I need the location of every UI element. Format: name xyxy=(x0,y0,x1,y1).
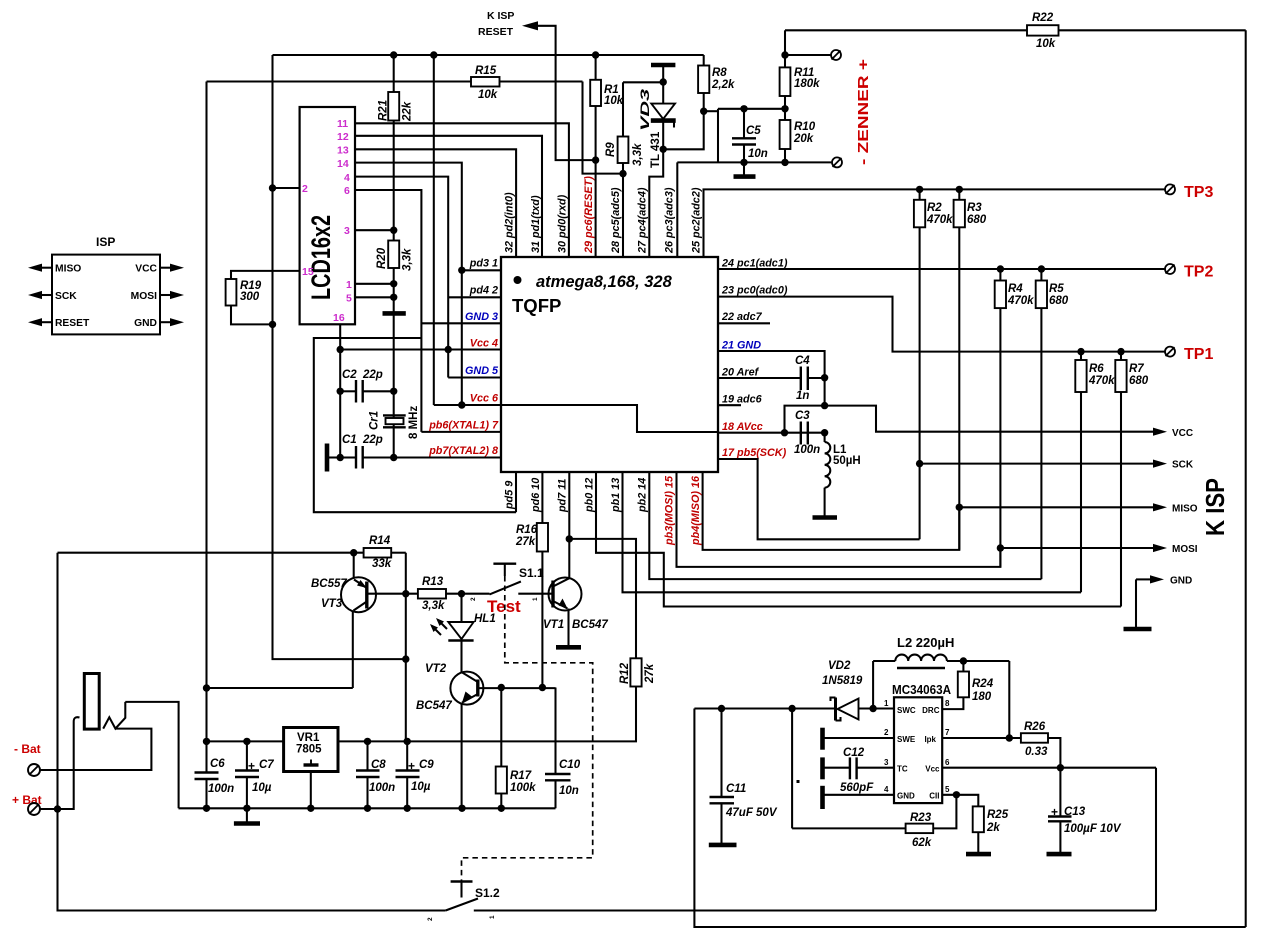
wire Vcc6 row + internal xyxy=(434,404,501,406)
svg-text:+: + xyxy=(248,759,255,773)
svg-text:C13: C13 xyxy=(1064,806,1086,818)
svg-text:11: 11 xyxy=(337,118,348,130)
wire pd7-11 to VT1 collector xyxy=(568,472,570,578)
svg-text:K ISP: K ISP xyxy=(1200,478,1230,536)
wire pin18 AVcc row xyxy=(718,432,825,434)
svg-text:C9: C9 xyxy=(419,759,434,771)
svg-text:10k: 10k xyxy=(478,89,498,101)
svg-text:pb2 14: pb2 14 xyxy=(637,478,649,513)
svg-text:+: + xyxy=(1051,805,1058,819)
wire U2 pin6 Vcc line xyxy=(942,767,1156,769)
wire LCD p3 to R20 xyxy=(355,229,394,231)
resistor R24 xyxy=(962,661,964,672)
svg-text:pd7 11: pd7 11 xyxy=(557,479,569,513)
crystal Cr1 xyxy=(383,414,406,416)
svg-text:3,3k: 3,3k xyxy=(632,143,644,166)
svg-text:10k: 10k xyxy=(1036,38,1056,50)
resistor R10 xyxy=(780,120,791,149)
node rail-R1 xyxy=(592,51,599,58)
node R9top-VD3 xyxy=(660,78,667,85)
wire L2 right to R26 node xyxy=(1008,661,1010,738)
node p16-Vcc4 xyxy=(337,346,344,353)
svg-text:RESET: RESET xyxy=(55,318,90,329)
transistor VT1 BC547 xyxy=(549,578,582,611)
svg-text:7805: 7805 xyxy=(296,744,322,756)
svg-text:R4: R4 xyxy=(1008,283,1023,295)
svg-text:5: 5 xyxy=(945,785,950,794)
svg-text:18 AVcc: 18 AVcc xyxy=(722,421,763,433)
svg-text:27k: 27k xyxy=(644,663,656,684)
wire MISO arrow line xyxy=(959,506,1155,508)
node R5-TP2 xyxy=(1038,265,1045,272)
svg-text:HL1: HL1 xyxy=(474,613,496,625)
svg-text:SWE: SWE xyxy=(897,735,916,744)
svg-text:ISP: ISP xyxy=(96,235,115,249)
svg-text:10n: 10n xyxy=(748,148,768,160)
ISP left arrows xyxy=(40,267,52,269)
ground sideways at C1 xyxy=(327,456,340,458)
capacitor C2 xyxy=(340,390,356,392)
node C5-bottom xyxy=(740,159,747,166)
wire LCD p11 to MCU pin30 xyxy=(355,123,569,257)
wire pd4 row xyxy=(448,296,501,298)
svg-text:3: 3 xyxy=(884,758,889,767)
resistor R17 xyxy=(500,688,502,767)
svg-text:13: 13 xyxy=(337,145,349,157)
node R2-SCK xyxy=(916,460,923,467)
svg-text:- Bat: - Bat xyxy=(14,742,41,756)
wire pin23 to TP1 line xyxy=(718,297,1165,352)
svg-text:1n: 1n xyxy=(796,390,809,402)
node R19-bottom xyxy=(269,321,276,328)
resistor R1 xyxy=(595,55,597,80)
wire MOSI arrow line xyxy=(1000,547,1155,549)
node VR1-gnd xyxy=(307,805,314,812)
wire pin17 SCK net xyxy=(718,459,920,539)
diode VD2 1N5819 xyxy=(834,698,837,721)
svg-text:470k: 470k xyxy=(1088,375,1115,387)
svg-text:R5: R5 xyxy=(1049,283,1064,295)
svg-text:6: 6 xyxy=(945,758,950,767)
svg-text:2,2k: 2,2k xyxy=(711,79,735,91)
wire R15 to R9-bottom jog x=582.5 xyxy=(583,82,624,174)
wire pb3-15 MOSI net xyxy=(677,472,1001,567)
node C6-gnd xyxy=(203,805,210,812)
wire pb4-16 MISO net xyxy=(703,472,960,550)
svg-text:100k: 100k xyxy=(510,782,536,794)
resistor R2 xyxy=(919,189,921,199)
svg-text:atmega8,168, 328: atmega8,168, 328 xyxy=(536,273,673,291)
wire pb7 XTAL2 row xyxy=(363,456,501,458)
resistor R21 xyxy=(393,55,395,92)
ground under C5 xyxy=(743,162,745,176)
wire ZENNER- line y=162.4 xyxy=(677,161,831,163)
svg-text:1N5819: 1N5819 xyxy=(822,675,863,687)
svg-text:pd6 10: pd6 10 xyxy=(530,478,542,513)
arrow VCC xyxy=(1153,428,1167,436)
wire pin1 line xyxy=(694,707,835,709)
svg-text:TP2: TP2 xyxy=(1184,264,1213,281)
svg-text:680: 680 xyxy=(967,214,987,226)
svg-text:- ZENNER +: - ZENNER + xyxy=(855,59,872,165)
svg-text:pb3(MOSI) 15: pb3(MOSI) 15 xyxy=(664,475,676,546)
wire pd3 row xyxy=(462,269,501,271)
svg-text:100n: 100n xyxy=(369,782,395,794)
node pd7-R12 xyxy=(566,535,573,542)
svg-text:180: 180 xyxy=(972,691,992,703)
wire ground rail xyxy=(179,807,556,809)
svg-text:10k: 10k xyxy=(604,95,624,107)
node R11-zenner xyxy=(781,51,788,58)
wire LCD p5 xyxy=(355,296,394,298)
svg-text:pd4 2: pd4 2 xyxy=(469,285,498,297)
svg-text:MC34063A: MC34063A xyxy=(892,682,952,697)
svg-text:31 pd1(txd): 31 pd1(txd) xyxy=(530,195,542,253)
svg-text:Cr1: Cr1 xyxy=(369,411,381,430)
node C7-top xyxy=(243,738,250,745)
node R20-p1 xyxy=(390,280,397,287)
svg-text:20k: 20k xyxy=(793,133,814,145)
svg-text:VCC: VCC xyxy=(135,264,157,275)
diode VD3 TL431 xyxy=(651,63,675,68)
resistor R9 xyxy=(622,82,624,136)
svg-text:VT2: VT2 xyxy=(425,663,447,675)
node rail-R21 xyxy=(390,51,397,58)
svg-text:MOSI: MOSI xyxy=(1172,544,1198,555)
svg-text:GND: GND xyxy=(134,318,157,329)
wire R15 net y=81.5 left section xyxy=(207,80,583,82)
ISP right arrows xyxy=(160,267,172,269)
node R7-TP1 xyxy=(1117,348,1124,355)
svg-text:VR1: VR1 xyxy=(297,732,320,744)
node C11-top xyxy=(718,705,725,712)
wire pin28 column xyxy=(622,174,624,257)
svg-text:0.33: 0.33 xyxy=(1025,746,1048,758)
wire LCD p16 column xyxy=(339,324,341,457)
inductor L2 xyxy=(872,661,874,709)
connector bars left of U2 xyxy=(820,728,825,750)
svg-text:VD2: VD2 xyxy=(828,660,851,672)
svg-text:GND 5: GND 5 xyxy=(465,365,499,377)
svg-text:24 pc1(adc1): 24 pc1(adc1) xyxy=(721,258,788,270)
resistor R20 xyxy=(388,241,399,269)
capacitor C4 xyxy=(800,367,802,391)
svg-text:15: 15 xyxy=(302,266,314,278)
wire LCD p2 xyxy=(273,187,300,189)
node R8-bottom xyxy=(700,108,707,115)
svg-text:Ipk: Ipk xyxy=(924,735,936,744)
node Vcc6-T xyxy=(458,401,465,408)
resistor R4 xyxy=(999,269,1001,281)
svg-text:4: 4 xyxy=(884,785,889,794)
node C2-right xyxy=(390,388,397,395)
svg-text:180k: 180k xyxy=(794,78,820,90)
wire LCD p6 to XTAL1 column xyxy=(355,190,421,432)
svg-text:MISO: MISO xyxy=(1172,503,1198,514)
svg-text:26 pc3(adc3): 26 pc3(adc3) xyxy=(664,187,676,254)
svg-text:CII: CII xyxy=(929,792,939,801)
resistor R26 xyxy=(1021,733,1048,743)
wire right outer vertical x=1245.7 xyxy=(1245,30,1247,927)
svg-text:L2 220µH: L2 220µH xyxy=(897,635,954,650)
wire pin20 Aref xyxy=(718,377,801,379)
node R6-TP1 xyxy=(1077,348,1084,355)
svg-text:470k: 470k xyxy=(926,214,953,226)
svg-text:25 pc2(adc2): 25 pc2(adc2) xyxy=(691,187,703,254)
node R3-MISO xyxy=(956,504,963,511)
svg-text:Vcc: Vcc xyxy=(925,765,940,774)
LCD16x2 module xyxy=(300,107,355,324)
svg-text:R23: R23 xyxy=(910,812,932,824)
svg-text:47uF 50V: 47uF 50V xyxy=(725,807,778,819)
mcu U2 MC34063A xyxy=(894,697,942,803)
capacitor C6 xyxy=(195,771,219,773)
svg-text:32 pd2(int0): 32 pd2(int0) xyxy=(504,192,516,253)
svg-text:17 pb5(SCK): 17 pb5(SCK) xyxy=(722,447,787,459)
svg-text:22p: 22p xyxy=(362,369,383,381)
svg-text:21 GND: 21 GND xyxy=(721,339,761,351)
svg-text:BC557: BC557 xyxy=(311,578,347,590)
node R13-R14 xyxy=(402,590,409,597)
wire LCD p12 to MCU pin31 xyxy=(355,136,542,257)
svg-text:pb1 13: pb1 13 xyxy=(610,478,622,513)
node TL431-R8 xyxy=(660,146,667,153)
svg-text:2: 2 xyxy=(470,597,477,601)
node +Bat-vert xyxy=(54,805,61,812)
ground under R20 xyxy=(383,311,406,316)
node R26-C13 xyxy=(1057,764,1064,771)
svg-text:2k: 2k xyxy=(986,822,1000,834)
wire pd5-9 xyxy=(515,472,517,512)
node C8-gnd xyxy=(364,805,371,812)
svg-text:Vcc 6: Vcc 6 xyxy=(470,392,499,404)
resistor R11 xyxy=(784,30,786,67)
capacitor C8 xyxy=(366,741,368,770)
svg-text:C4: C4 xyxy=(795,355,810,367)
node C9-gnd xyxy=(404,805,411,812)
wire LCD p1 xyxy=(355,283,394,285)
svg-text:Vcc 4: Vcc 4 xyxy=(470,337,498,349)
resistor R19 xyxy=(226,279,237,306)
node C7-gnd xyxy=(243,805,250,812)
svg-text:S1.2: S1.2 xyxy=(475,886,500,900)
svg-text:R25: R25 xyxy=(987,809,1009,821)
wire jack output xyxy=(125,702,178,808)
svg-text:1: 1 xyxy=(884,699,889,708)
wire crystal column xyxy=(393,313,395,457)
svg-text:8: 8 xyxy=(945,699,950,708)
node R17-gnd xyxy=(498,805,505,812)
capacitor C7 xyxy=(246,741,248,770)
connector jack pin xyxy=(84,674,99,730)
node C4-right xyxy=(821,374,828,381)
node L2-R24 xyxy=(960,657,967,664)
node C9-top xyxy=(404,738,411,745)
wire U2 pin5 CII xyxy=(942,795,978,807)
node L2-pin1 xyxy=(869,705,876,712)
wire left rail vertical x=272.5 xyxy=(273,55,406,659)
wire VR1 gnd column xyxy=(310,772,312,809)
svg-text:29 pc6(RESET): 29 pc6(RESET) xyxy=(583,176,595,254)
svg-text:R15: R15 xyxy=(475,65,497,77)
svg-text:S1.1: S1.1 xyxy=(519,566,544,580)
wire GND5 row xyxy=(448,376,501,378)
svg-text:pb7(XTAL2) 8: pb7(XTAL2) 8 xyxy=(428,445,498,457)
node R17-top xyxy=(498,684,505,691)
resistor R3 xyxy=(958,189,960,199)
connector jack spring contact xyxy=(103,702,125,729)
capacitor C12 + wire U2 pin3 xyxy=(824,767,850,769)
svg-text:DRC: DRC xyxy=(922,706,940,715)
wire SCK arrow line xyxy=(920,463,1155,465)
svg-text:R22: R22 xyxy=(1032,12,1054,24)
wire +Bat to jack clip xyxy=(40,722,74,809)
svg-text:62k: 62k xyxy=(912,837,932,849)
svg-text:7: 7 xyxy=(945,728,950,737)
wire left vertical x=57.5 to S1.2 xyxy=(58,553,446,911)
svg-text:C5: C5 xyxy=(746,125,761,137)
node R23-top xyxy=(788,705,795,712)
node C4-jog xyxy=(821,402,828,409)
wire U2 pin4 xyxy=(824,794,894,796)
wire VCC jog over C3 xyxy=(785,406,1156,433)
wire R23 riser xyxy=(791,709,793,829)
svg-text:23 pc0(adc0): 23 pc0(adc0) xyxy=(721,285,788,297)
wire VT2 base line xyxy=(478,687,556,689)
svg-text:+: + xyxy=(408,759,415,773)
svg-text:VT1: VT1 xyxy=(543,619,564,631)
svg-text:28 pc5(adc5): 28 pc5(adc5) xyxy=(610,187,622,254)
wire U2 pin2 xyxy=(824,737,894,739)
dashed link S1.1 down xyxy=(462,576,593,882)
svg-text:R10: R10 xyxy=(794,121,816,133)
svg-text:19 adc6: 19 adc6 xyxy=(722,393,763,405)
svg-text:SCK: SCK xyxy=(1172,460,1194,471)
svg-text:BC547: BC547 xyxy=(572,619,608,631)
svg-text:pb0 12: pb0 12 xyxy=(584,478,596,513)
capacitor C5 xyxy=(743,109,745,139)
wire pin22 stub xyxy=(718,322,770,324)
svg-text:6: 6 xyxy=(344,185,350,197)
svg-text:C1: C1 xyxy=(342,434,357,446)
svg-text:1: 1 xyxy=(532,597,539,601)
node R16-bottom xyxy=(539,684,546,691)
svg-text:100µF 10V: 100µF 10V xyxy=(1064,823,1122,835)
svg-text:680: 680 xyxy=(1049,295,1069,307)
svg-text:R2: R2 xyxy=(927,202,942,214)
svg-text:1: 1 xyxy=(346,279,352,291)
svg-text:3,3k: 3,3k xyxy=(402,248,414,271)
wire outer loop left xyxy=(694,709,1245,928)
svg-text:R17: R17 xyxy=(510,770,532,782)
svg-text:R7: R7 xyxy=(1129,363,1144,375)
svg-text:C8: C8 xyxy=(371,759,386,771)
wire R14 line from left xyxy=(58,552,364,554)
svg-text:10µ: 10µ xyxy=(252,782,272,794)
svg-text:R8: R8 xyxy=(712,67,727,79)
svg-text:pd3 1: pd3 1 xyxy=(469,258,498,270)
node C6-top xyxy=(203,738,210,745)
svg-text:RESET: RESET xyxy=(478,26,514,38)
svg-text:12: 12 xyxy=(337,131,349,143)
wire R9 top to VD3 y=82.3 xyxy=(623,81,663,83)
node R10-bottom xyxy=(781,159,788,166)
svg-text:1: 1 xyxy=(489,915,496,919)
wire -Bat to jack xyxy=(40,729,151,770)
svg-text:MISO: MISO xyxy=(55,264,81,275)
wire GND arrow + ground xyxy=(1136,578,1152,580)
resistor R7 xyxy=(1120,352,1122,360)
svg-text:R16: R16 xyxy=(516,524,538,536)
svg-text:TC: TC xyxy=(897,765,908,774)
wire GND3 jog xyxy=(421,322,501,324)
svg-text:50µH: 50µH xyxy=(833,455,861,467)
svg-text:16: 16 xyxy=(333,312,345,324)
node R4-MOSI xyxy=(997,544,1004,551)
wire left long vertical x=206.5 from R15 line down to C6 xyxy=(205,82,207,773)
node x272-column xyxy=(402,655,409,662)
wire pb2-14 net xyxy=(649,472,1041,579)
inductor L1 xyxy=(824,433,826,442)
svg-text:4: 4 xyxy=(344,172,350,184)
wire LCD p15 to R19 xyxy=(231,271,300,279)
ground main under C7 xyxy=(246,808,248,823)
svg-text:R26: R26 xyxy=(1024,721,1046,733)
svg-text:pb4(MISO) 16: pb4(MISO) 16 xyxy=(690,475,702,546)
wire x718 column xyxy=(717,109,719,163)
node rail-x433 xyxy=(430,51,437,58)
svg-text:C12: C12 xyxy=(843,747,865,759)
svg-text:GND: GND xyxy=(897,792,915,801)
svg-text:2: 2 xyxy=(884,728,889,737)
svg-text:VT3: VT3 xyxy=(321,598,343,610)
node C3-right xyxy=(821,429,828,436)
svg-text:TP1: TP1 xyxy=(1184,346,1213,363)
svg-text:5: 5 xyxy=(346,293,352,305)
svg-text:R21: R21 xyxy=(378,100,390,121)
wire pin21 GND net xyxy=(718,351,825,406)
wire pin26 column xyxy=(676,162,678,257)
svg-text:K ISP: K ISP xyxy=(487,10,514,22)
svg-text:680: 680 xyxy=(1129,375,1149,387)
resistor R23 xyxy=(792,827,906,829)
wire LCD p4 to pd4/Vcc4/GND5 column xyxy=(355,177,448,378)
wire pb1-13 net xyxy=(623,472,1082,592)
svg-text:27k: 27k xyxy=(515,536,536,548)
svg-text:R24: R24 xyxy=(972,678,994,690)
resistor R13 xyxy=(418,589,446,599)
svg-text:C10: C10 xyxy=(559,759,581,771)
svg-text:C11: C11 xyxy=(726,783,746,795)
switch S1.2 xyxy=(451,880,473,882)
svg-text:22p: 22p xyxy=(362,434,383,446)
terminal ZENNER- xyxy=(832,157,842,167)
node R11-R10 xyxy=(781,105,788,112)
wire LCD p13 to MCU pin32 xyxy=(355,149,516,257)
svg-text:VCC: VCC xyxy=(1172,428,1193,439)
wire LCD p14 to MCU pd3 xyxy=(355,163,462,405)
resistor R12 xyxy=(630,658,641,686)
resistor R15 xyxy=(471,77,500,87)
wire pb0-12 net xyxy=(596,472,1121,607)
wire pb6 XTAL1 row xyxy=(421,431,501,433)
node R23-pin5 xyxy=(953,791,960,798)
wire rail to Vcc6 vertical x=433.8 xyxy=(433,55,435,405)
node C1-right xyxy=(390,454,397,461)
terminal TP2 xyxy=(1165,264,1175,274)
resistor R22 xyxy=(785,29,1027,31)
wire x=272.5 to R13R14 column link xyxy=(271,658,273,660)
